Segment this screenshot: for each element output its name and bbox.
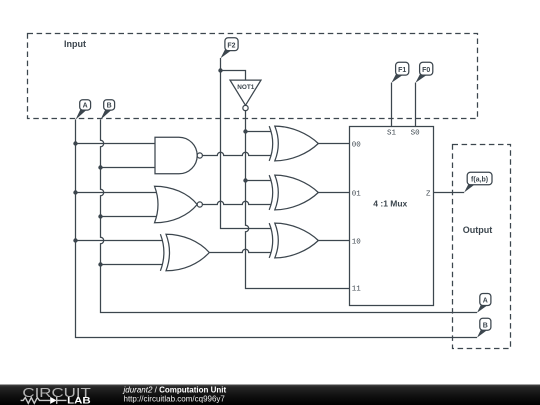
svg-text:4 :1 Mux: 4 :1 Mux bbox=[373, 199, 407, 209]
flag F1 bbox=[392, 62, 409, 83]
junction on NOT1 output at XOR3 branch bbox=[243, 178, 247, 182]
svg-text:00: 00 bbox=[352, 141, 362, 149]
svg-text:jdurant2 / Computation Unit: jdurant2 / Computation Unit bbox=[123, 386, 227, 395]
wire: NOT1 output to XOR2 top input bbox=[246, 131, 272, 133]
wire: net A vertical from flag A down and bottom run to right-side flag B bbox=[76, 120, 478, 338]
footer bar bbox=[0, 385, 540, 405]
XOR gate XOR3 bbox=[269, 175, 318, 210]
wire: XOR2 output to mux input 00 bbox=[318, 143, 349, 145]
Input dashed region box bbox=[28, 34, 478, 119]
4:1 multiplexer MUX1 bbox=[350, 127, 434, 306]
flag F2 bbox=[221, 38, 239, 58]
NAND gate NAND1 bbox=[155, 137, 202, 174]
wire: B to XOR1 bottom input bbox=[101, 264, 164, 266]
Output dashed region box bbox=[453, 145, 511, 349]
svg-text:B: B bbox=[483, 322, 488, 329]
svg-text:11: 11 bbox=[352, 285, 362, 293]
svg-text:Z: Z bbox=[426, 191, 431, 199]
flag B (output side) bbox=[477, 318, 491, 337]
svg-text:http://circuitlab.com/cq996y7: http://circuitlab.com/cq996y7 bbox=[124, 395, 226, 404]
junction on B at NOR1 bottom input bbox=[98, 214, 102, 218]
flag f(a,b) (output) bbox=[464, 172, 492, 192]
wire: A to XOR1 top input bbox=[76, 240, 164, 242]
junction on A at NAND1 top input bbox=[73, 141, 77, 145]
wire: net F2 vertical down and across to XOR4 top input bbox=[221, 58, 272, 229]
wire: XOR4 output to mux input 10 bbox=[318, 240, 349, 242]
wire: NOT1 output vertical with hop, down to mux input 11 bbox=[246, 111, 350, 289]
wire: net B vertical with hops over A-branch wires, bottom run to right-side flag A bbox=[101, 120, 478, 313]
junction on A at NOR1 top input bbox=[73, 190, 77, 194]
flag A (input) bbox=[76, 100, 91, 120]
NOT gate NOT1 bbox=[230, 80, 261, 111]
wire: XOR1 output to XOR4 bottom input with hop bbox=[209, 249, 271, 252]
svg-text:LAB: LAB bbox=[67, 396, 91, 405]
svg-text:F0: F0 bbox=[422, 67, 430, 74]
wire: B to NAND1 bottom input bbox=[101, 167, 156, 169]
CircuitLab logo diode bbox=[50, 397, 56, 404]
svg-text:A: A bbox=[483, 298, 488, 305]
svg-text:A: A bbox=[83, 103, 88, 110]
XOR gate XOR4 bbox=[269, 223, 318, 258]
svg-text:S1: S1 bbox=[387, 129, 397, 137]
wire: flag F0 to mux select S0 bbox=[415, 83, 417, 127]
wire: A to NOR1 top input bbox=[76, 192, 158, 194]
junction on A at XOR1 top input bbox=[73, 238, 77, 242]
XOR gate XOR2 bbox=[269, 126, 318, 161]
wire: NOT1 output to XOR3 top input bbox=[246, 180, 272, 182]
flag A (output side) bbox=[477, 294, 491, 313]
wire: B to NOR1 bottom input bbox=[101, 216, 158, 218]
flag B (input) bbox=[101, 100, 115, 120]
junction on F2 at NOT1 branch bbox=[218, 68, 222, 72]
svg-text:Output: Output bbox=[463, 225, 493, 235]
wire: A to NAND1 top input bbox=[76, 143, 156, 145]
NOR gate NOR1 bbox=[155, 186, 203, 223]
wire: mux Z output to flag f(a,b) bbox=[434, 192, 465, 194]
flag F0 bbox=[416, 62, 433, 83]
XOR gate XOR1 bbox=[160, 234, 209, 271]
svg-text:S0: S0 bbox=[411, 129, 421, 137]
junction on B at NAND1 bottom input bbox=[98, 165, 102, 169]
wire: flag F1 to mux select S1 bbox=[391, 83, 393, 127]
svg-text:F2: F2 bbox=[227, 43, 235, 50]
svg-text:F1: F1 bbox=[398, 67, 406, 74]
junction on NOT1 output at XOR2 branch bbox=[243, 129, 247, 133]
svg-text:f(a,b): f(a,b) bbox=[471, 177, 488, 184]
svg-text:B: B bbox=[107, 103, 112, 110]
wire: F2 branch to NOT1 input bbox=[221, 71, 246, 81]
svg-text:01: 01 bbox=[352, 191, 362, 199]
CircuitLab logo resistor zigzag bbox=[21, 398, 51, 404]
wire: NAND1 output to XOR2 bottom input with two hops bbox=[202, 152, 271, 155]
svg-text:NOT1: NOT1 bbox=[237, 84, 254, 91]
svg-text:Input: Input bbox=[64, 39, 86, 49]
junction on B at XOR1 bottom input bbox=[98, 262, 102, 266]
svg-text:10: 10 bbox=[352, 238, 362, 246]
wire: NOR1 output to XOR3 bottom input with two hops bbox=[202, 201, 271, 204]
wire: XOR3 output to mux input 01 bbox=[318, 192, 349, 194]
